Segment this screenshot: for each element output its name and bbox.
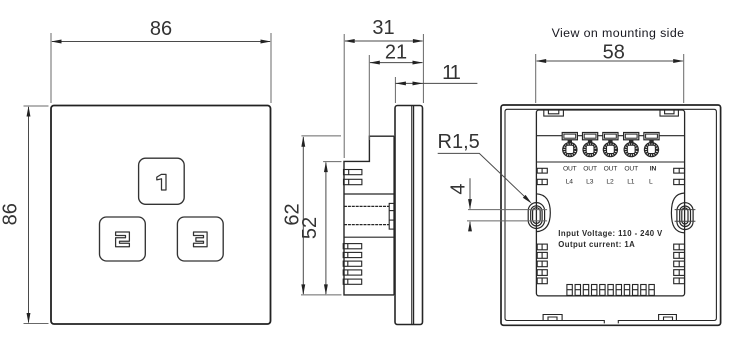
- terminal 1 screw: [568, 140, 572, 144]
- mounting frame outer: [501, 105, 721, 325]
- side view body silhouette: [344, 136, 394, 295]
- dimension 86 left: extension lines: [24, 105, 49, 107]
- svg-text:21: 21: [385, 41, 407, 63]
- svg-text:L: L: [649, 178, 653, 185]
- insert body outline: [536, 110, 684, 296]
- terminal 2 wire port: [583, 133, 598, 140]
- svg-text:11: 11: [442, 62, 461, 84]
- side view hidden edge dashed upper: [344, 205, 389, 207]
- side view wall plate: [395, 106, 423, 325]
- left mounting slot ovals: [528, 203, 544, 229]
- dimension 21: line and arrows: [370, 62, 423, 64]
- side view connector stack: [389, 203, 394, 229]
- dimension 58: line and arrows: [537, 60, 683, 62]
- terminal band bottom line: [537, 161, 684, 163]
- dimension 86 top: line and arrows: [52, 41, 270, 43]
- right slot cross lines: [675, 209, 696, 211]
- svg-text:Input Voltage: 110 - 240 V: Input Voltage: 110 - 240 V: [558, 229, 663, 238]
- side view body front edge: [393, 136, 395, 295]
- right mounting ear bump: [671, 193, 684, 233]
- frame top clip tab left: [544, 109, 564, 116]
- side view internal line lower: [344, 236, 394, 238]
- side view internal line upper: [344, 193, 394, 195]
- dimension 62: line and arrows: [302, 137, 304, 294]
- digit 2: [116, 232, 130, 247]
- terminal 2 screw: [588, 140, 592, 144]
- dimension 86 top: extension lines: [50, 33, 52, 103]
- terminal 5 wire port: [644, 133, 659, 140]
- left mounting ear bump: [536, 194, 550, 232]
- side view plate inner split lines: [411, 106, 413, 324]
- dimension 52: extension line: [323, 161, 341, 163]
- dimension 58: extension lines: [535, 54, 537, 103]
- bottom vent slots: [567, 285, 654, 296]
- dimension 52: line and arrows: [325, 163, 327, 295]
- svg-text:31: 31: [372, 17, 394, 39]
- right mounting slot ovals: [677, 203, 693, 230]
- svg-text:OUT: OUT: [583, 165, 597, 172]
- dimension 86 left: line and arrows: [28, 107, 30, 323]
- terminal 1 wire port: [562, 133, 577, 140]
- svg-text:OUT: OUT: [563, 165, 577, 172]
- svg-text:L1: L1: [627, 178, 635, 185]
- digit 1: [157, 174, 166, 190]
- svg-text:Output current: 1A: Output current: 1A: [558, 240, 635, 249]
- svg-text:52: 52: [299, 217, 321, 239]
- frame top clip tab right: [660, 109, 678, 116]
- svg-text:L4: L4: [566, 178, 574, 185]
- left vent slots: [537, 168, 547, 283]
- frame bottom clip tab left: [543, 315, 562, 321]
- svg-text:OUT: OUT: [624, 165, 638, 172]
- button 2: [100, 217, 146, 261]
- side view lower vent slots: [343, 244, 362, 285]
- dimension 31: line and arrows: [345, 40, 423, 42]
- dimension 4: line and arrows: [469, 178, 471, 208]
- svg-text:OUT: OUT: [604, 165, 618, 172]
- dimension 11: extension line: [394, 77, 396, 103]
- mounting frame inner: [505, 109, 716, 323]
- terminal 3 screw: [608, 140, 612, 144]
- svg-text:L2: L2: [606, 178, 614, 185]
- dimension 11: line and arrows: [395, 82, 477, 84]
- button 3: [177, 217, 223, 261]
- right vent slots: [674, 168, 685, 283]
- terminal band top line: [537, 135, 684, 137]
- side view upper terminal slot 1: [344, 170, 362, 175]
- svg-text:4: 4: [448, 183, 470, 194]
- svg-text:86: 86: [150, 18, 172, 40]
- terminal 4 screw: [629, 140, 633, 144]
- dimension 31: extension lines: [343, 34, 345, 158]
- dimension 62: extension lines: [301, 135, 341, 137]
- button 1: [139, 158, 185, 204]
- frame bottom clip tab right: [659, 315, 677, 321]
- front plate outline: [51, 106, 271, 325]
- digit 3: [194, 232, 208, 247]
- svg-text:58: 58: [603, 42, 625, 64]
- svg-text:View on mounting side: View on mounting side: [552, 26, 685, 40]
- terminal 3 wire port: [603, 133, 618, 140]
- svg-text:86: 86: [0, 203, 22, 225]
- side view upper terminal slot 2: [344, 179, 362, 184]
- svg-text:IN: IN: [650, 165, 657, 172]
- side view hidden edge dashed lower: [344, 224, 389, 226]
- dimension 4: pointer lines: [468, 209, 547, 211]
- dimension 21: extension line: [368, 55, 370, 140]
- terminal 5 screw: [649, 140, 653, 144]
- svg-text:R1,5: R1,5: [438, 131, 480, 153]
- svg-text:L3: L3: [586, 178, 594, 185]
- terminal 4 wire port: [624, 133, 639, 140]
